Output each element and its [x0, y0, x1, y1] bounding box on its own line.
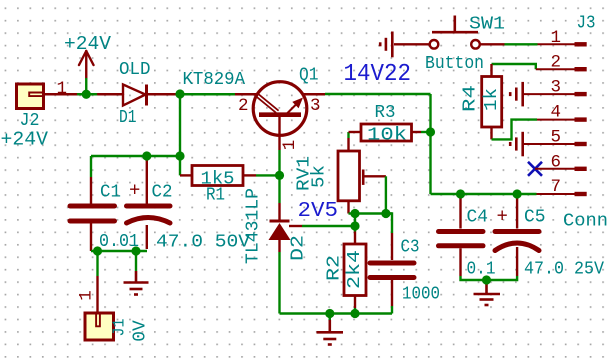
resistor R4 — [482, 77, 502, 128]
junction gnd bottom — [325, 309, 334, 318]
wire node A to D1 anode — [86, 93, 123, 95]
svg-text:C1: C1 — [100, 183, 121, 203]
connector J3 pin 6 — [535, 167, 587, 171]
switch SW1 — [430, 16, 480, 49]
svg-text:C2: C2 — [152, 183, 173, 203]
wire R2 to gnd rail — [354, 308, 356, 314]
pin C3 bottom — [391, 280, 393, 307]
svg-text:+: + — [129, 180, 140, 202]
ground C4C5 — [474, 281, 501, 305]
svg-text:+: + — [497, 206, 508, 228]
junction C1 rail right — [175, 151, 184, 160]
junction C5 top — [513, 189, 522, 198]
ground bottom — [317, 320, 344, 345]
pin RV1 top — [347, 138, 349, 151]
pin 3 of Q1 — [304, 93, 326, 95]
wire node B to Q1 base pin — [182, 93, 235, 95]
wire rail to J3 pin7 — [431, 193, 537, 195]
wire node 2V5 to R2 — [354, 214, 356, 232]
capacitor C4 — [439, 232, 484, 246]
svg-text:7: 7 — [551, 177, 562, 197]
connector J3 pin 5 — [523, 142, 587, 146]
svg-text:1: 1 — [551, 28, 562, 48]
wire +24V to node A — [85, 78, 87, 94]
svg-text:1: 1 — [280, 140, 300, 151]
wire output rail vertical — [429, 94, 431, 194]
wire Q1 emitter to rail corner — [325, 93, 431, 95]
connector J2 — [17, 84, 44, 109]
wire C1 elbow — [90, 156, 92, 177]
svg-text:J1: J1 — [111, 319, 130, 337]
junction R3 rail — [426, 127, 435, 136]
wire C1 C2 bottom — [91, 250, 147, 252]
capacitor C2 — [127, 206, 171, 223]
pin R4 top — [490, 64, 492, 77]
junction J1 tap — [93, 246, 102, 255]
wire R4 top to J3 pin2 — [492, 64, 536, 69]
resistor R2 — [344, 244, 366, 296]
svg-text:4: 4 — [551, 103, 562, 123]
junction C4 top — [456, 189, 465, 198]
svg-text:2V5: 2V5 — [298, 200, 339, 223]
svg-text:SW1: SW1 — [469, 15, 505, 35]
svg-text:D2: D2 — [289, 235, 309, 261]
svg-text:1000: 1000 — [402, 285, 440, 305]
connector J3 pin 3 — [523, 92, 587, 96]
wire to ground C1C2 — [135, 251, 137, 271]
wire R1 to base node — [256, 174, 280, 176]
svg-text:47.0 50V: 47.0 50V — [156, 233, 250, 253]
wire D2 ref to node 2V5 — [302, 225, 355, 227]
svg-text:2: 2 — [551, 53, 562, 73]
capacitor C1 — [70, 206, 115, 221]
pin D2 cathode — [278, 203, 280, 221]
wire SW1 to J3 pin1 — [505, 43, 538, 45]
wire R3 to rail — [421, 131, 431, 133]
svg-text:5: 5 — [551, 128, 562, 148]
pin R1 right — [243, 174, 256, 176]
ground at SW1 — [380, 32, 392, 58]
pin R4 bottom — [490, 127, 492, 139]
pin C3 top — [391, 233, 393, 260]
pin SW1 left — [394, 43, 430, 45]
wire to J1 — [96, 251, 98, 276]
svg-text:Conn: Conn — [563, 212, 608, 232]
pin C2 bottom — [146, 225, 148, 249]
svg-text:6: 6 — [551, 152, 562, 172]
svg-text:J3: J3 — [577, 13, 596, 33]
capacitor C5 — [495, 232, 539, 251]
junction R2 bottom — [350, 309, 359, 318]
svg-text:D1: D1 — [119, 108, 137, 128]
pin C2 top — [146, 159, 148, 204]
svg-text:5k: 5k — [310, 165, 330, 188]
ground at J3 pin5 — [510, 132, 523, 157]
svg-text:2: 2 — [238, 96, 249, 116]
svg-text:10k: 10k — [367, 126, 407, 146]
svg-text:1k: 1k — [482, 88, 502, 111]
svg-text:TL431LP: TL431LP — [244, 188, 264, 264]
svg-text:C5: C5 — [524, 208, 546, 228]
wire D2 anode down — [278, 252, 280, 314]
svg-text:R4: R4 — [461, 85, 481, 112]
pin C5 top — [516, 194, 518, 229]
svg-text:R3: R3 — [375, 103, 396, 123]
svg-text:R2: R2 — [325, 255, 345, 281]
ground at J3 pin3 — [510, 82, 523, 107]
svg-text:+24V: +24V — [64, 33, 111, 55]
wire R4 bottom to J3 pin4 — [492, 120, 538, 140]
connector J3 pin 1 — [538, 42, 587, 46]
wire J2 to node A — [44, 93, 86, 95]
pin R3 left — [349, 131, 362, 133]
wire C3 to gnd rail — [391, 306, 393, 314]
junction node A — [82, 90, 91, 99]
svg-text:3: 3 — [551, 78, 562, 98]
pin 2 of Q1 — [235, 93, 257, 95]
pin J1 — [96, 276, 98, 316]
pin C1 top — [90, 177, 92, 204]
pin RV1 bottom — [347, 201, 349, 214]
junction C1 rail left — [142, 151, 151, 160]
pin C1 bottom — [90, 224, 92, 252]
connector J1 — [85, 313, 114, 340]
wire D1 cathode to node B — [147, 93, 179, 95]
wire node 2V5 horizontal — [349, 212, 393, 214]
pin C4 top — [459, 194, 461, 229]
junction gnd C4C5 — [482, 275, 491, 284]
svg-text:C4: C4 — [467, 208, 489, 228]
wire R1 drop — [179, 156, 181, 175]
connector J3 pin 7 — [537, 192, 587, 196]
wire C4 C5 bottom — [461, 276, 518, 280]
svg-text:14V22: 14V22 — [344, 61, 412, 88]
pin 1 of Q1 — [278, 115, 280, 150]
pin D2 ref tab — [289, 225, 302, 227]
svg-text:R1: R1 — [206, 186, 225, 206]
pin R3 right — [412, 131, 422, 133]
junction gnd tap — [131, 246, 140, 255]
capacitor C3 — [370, 263, 414, 278]
svg-text:C3: C3 — [401, 238, 420, 258]
svg-text:1: 1 — [57, 79, 68, 99]
pin R2 top — [354, 232, 356, 245]
svg-text:0.01: 0.01 — [99, 232, 139, 252]
resistor R3 — [361, 124, 412, 141]
junction 2V5 c — [350, 221, 359, 230]
pin C4 bottom — [459, 248, 461, 276]
resistor R1 — [192, 166, 243, 186]
wire wiper down — [385, 176, 387, 213]
power +24V symbol — [79, 51, 94, 78]
pin R2 bottom — [354, 296, 356, 309]
wire bottom gnd rail — [280, 312, 393, 314]
wire gnd stub bottom — [329, 314, 331, 321]
pin SW1 right — [480, 43, 505, 45]
ground C1C2 — [124, 271, 149, 295]
connector J3 pin 4 — [537, 117, 587, 121]
pin C5 bottom — [516, 247, 518, 276]
svg-text:3: 3 — [310, 96, 321, 116]
svg-text:0.1: 0.1 — [467, 260, 496, 280]
wire R3 left elbow — [347, 132, 349, 138]
junction 2V5 a — [350, 209, 359, 218]
connector J3 pin 2 — [536, 67, 587, 71]
svg-text:Q1: Q1 — [299, 66, 319, 86]
wire node B down — [179, 94, 181, 156]
pin D2 anode — [278, 240, 280, 252]
svg-text:1: 1 — [77, 290, 97, 301]
junction node B — [175, 89, 184, 98]
pin R1 left — [180, 174, 192, 176]
shunt reference D2 TL431 — [269, 221, 291, 240]
svg-text:Button: Button — [425, 54, 484, 74]
diode D1 — [123, 85, 147, 106]
no-connect X at pin 6 — [528, 162, 542, 176]
svg-text:47.0 25V: 47.0 25V — [524, 260, 604, 280]
svg-text:OLD: OLD — [119, 60, 151, 80]
transistor Q1 — [253, 82, 307, 136]
junction base node — [275, 171, 284, 180]
svg-text:+24V: +24V — [1, 129, 49, 151]
junction 2V5 b — [381, 209, 390, 218]
svg-text:KT829A: KT829A — [183, 70, 246, 90]
wire C1 top rail — [91, 155, 180, 157]
potentiometer RV1 — [338, 151, 386, 201]
svg-text:0V: 0V — [131, 320, 151, 342]
wire C3 jog — [386, 214, 392, 234]
svg-text:2k4: 2k4 — [345, 250, 365, 289]
wire base node vertical — [278, 150, 280, 203]
